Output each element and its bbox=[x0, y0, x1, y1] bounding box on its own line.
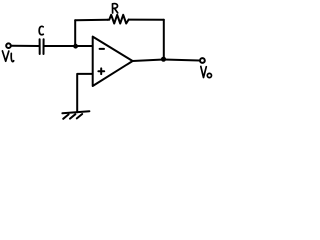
op-amp non-inverting input plus sign bbox=[98, 68, 104, 74]
wire op-amp output to node B bbox=[133, 60, 164, 62]
wire feedback drop to node B bbox=[163, 20, 165, 59]
wire input terminal to capacitor bbox=[11, 45, 38, 47]
output terminal Vo bbox=[200, 58, 205, 63]
wire feedback top right segment bbox=[129, 19, 164, 21]
wire op-amp non-inverting input to ground bbox=[77, 74, 92, 112]
wire feedback top left segment bbox=[75, 19, 107, 21]
label Vo bbox=[201, 66, 212, 77]
wire feedback riser from node A bbox=[74, 20, 76, 45]
label Vi bbox=[2, 51, 13, 62]
capacitor C bbox=[40, 39, 44, 54]
label C bbox=[39, 26, 43, 34]
node A inverting input junction bbox=[73, 44, 78, 49]
ground bbox=[62, 111, 89, 119]
op-amp U1 bbox=[93, 37, 133, 86]
input terminal Vi bbox=[6, 43, 11, 48]
wire node A to op-amp inverting input bbox=[76, 45, 93, 47]
label R bbox=[113, 4, 118, 13]
wire node B to output terminal bbox=[164, 60, 200, 61]
wire capacitor to node A bbox=[45, 45, 76, 47]
op-amp inverting input minus sign bbox=[100, 48, 104, 50]
node B output junction bbox=[161, 57, 166, 62]
resistor R bbox=[108, 15, 129, 24]
